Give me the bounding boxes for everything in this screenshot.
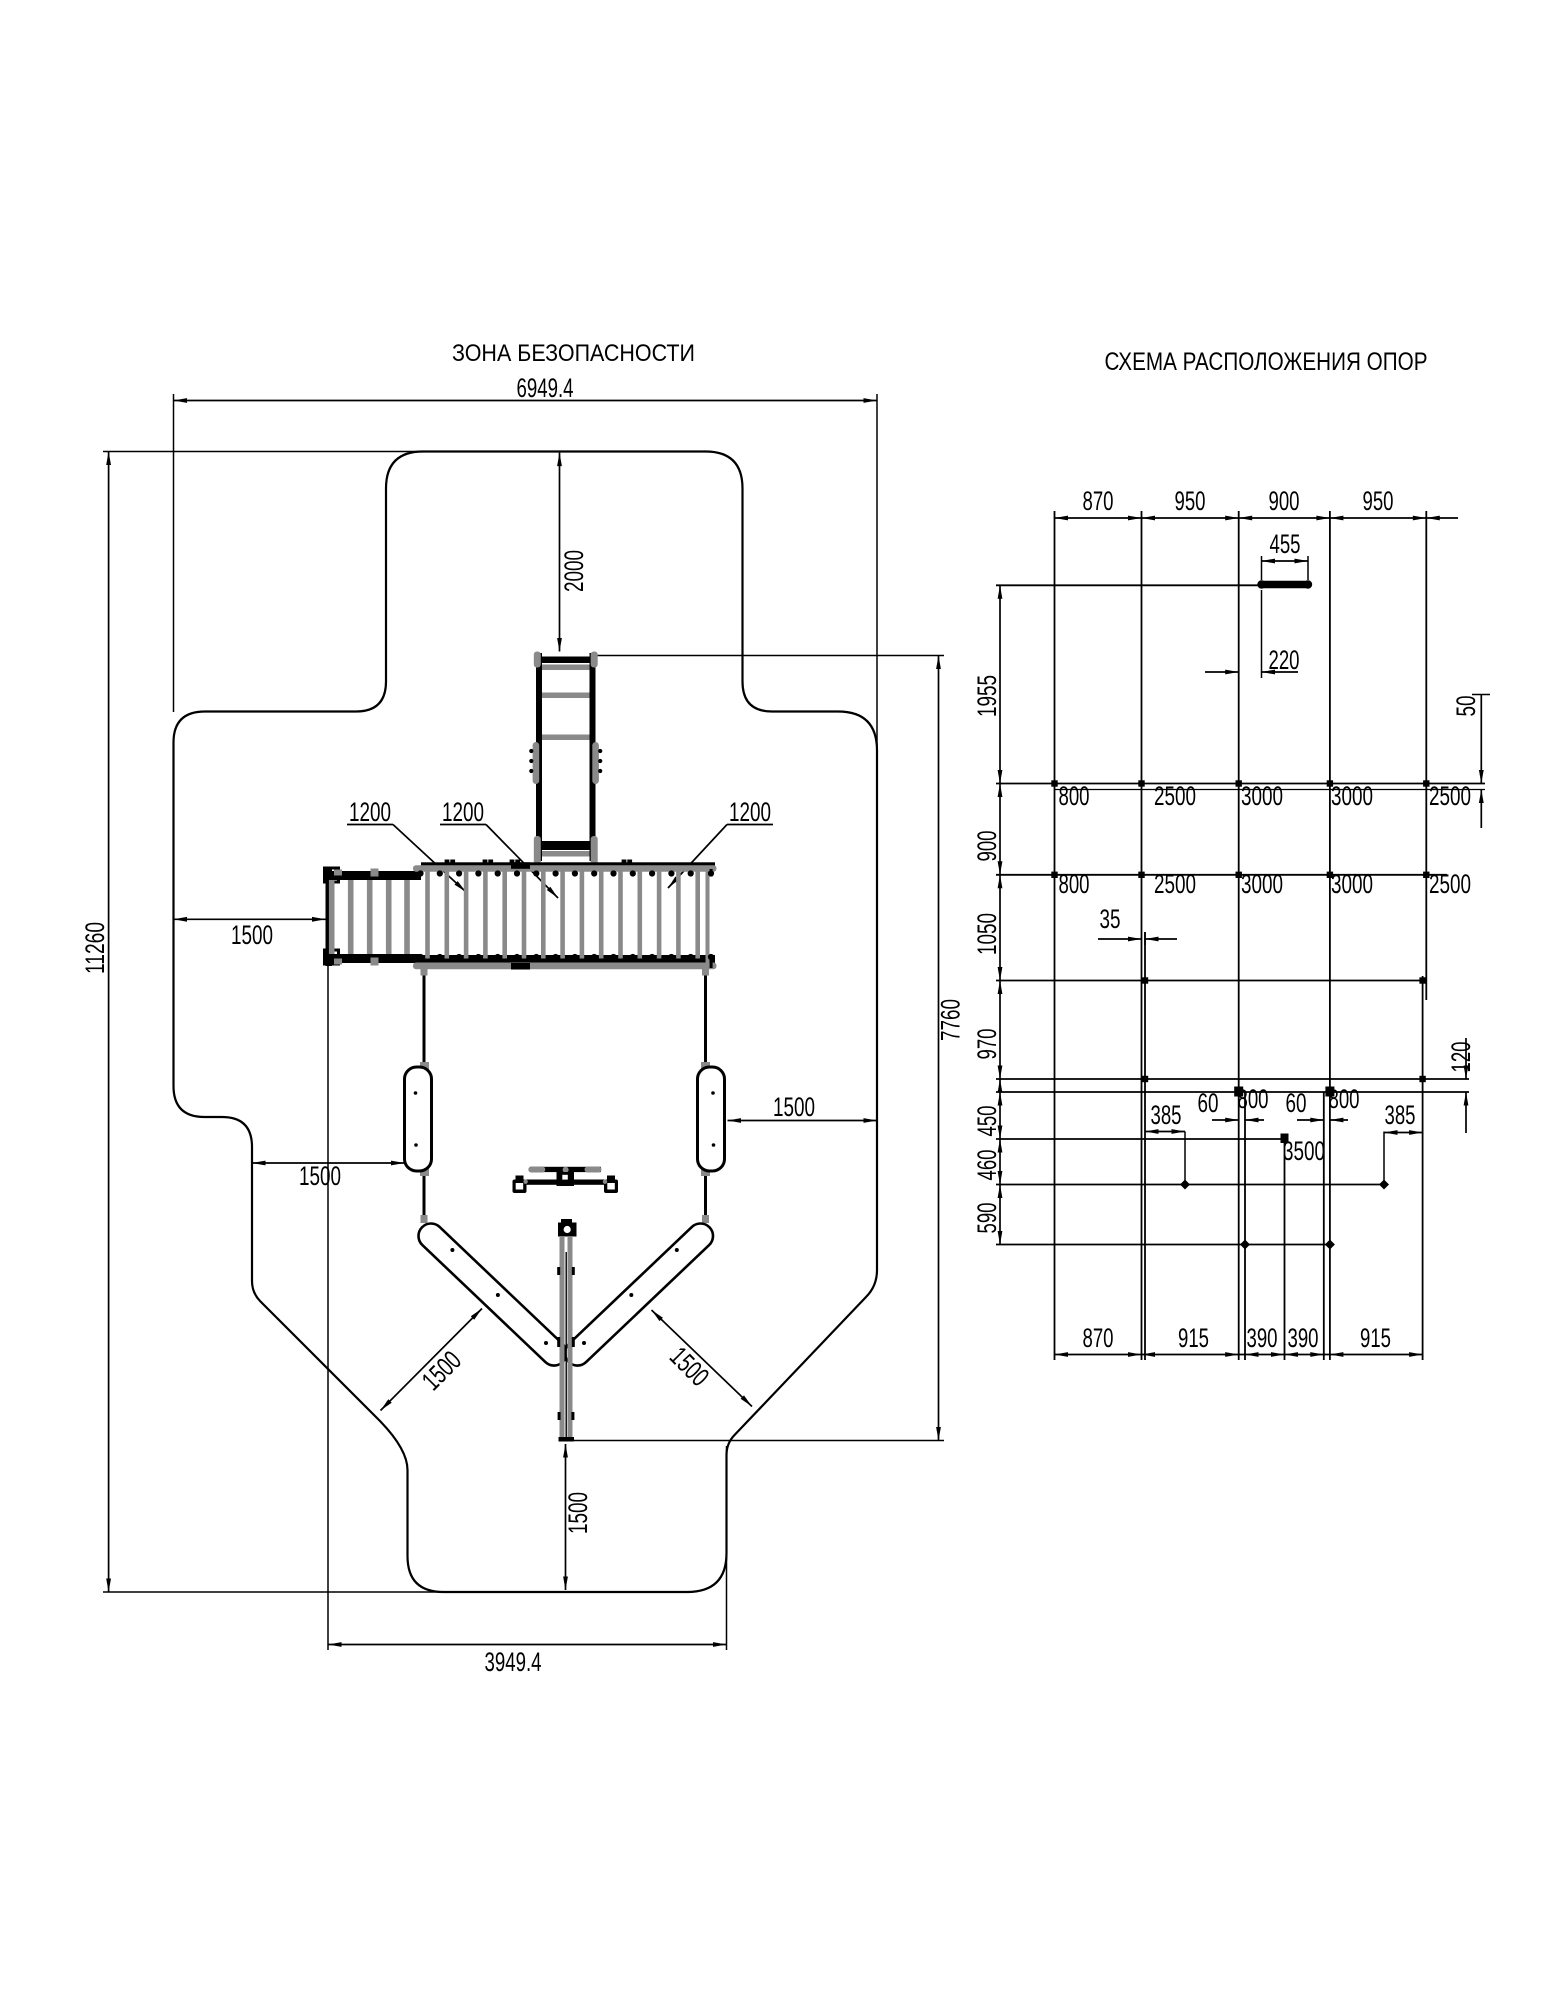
dim 385 right [1383, 1132, 1385, 1185]
svg-text:50: 50 [1451, 696, 1481, 717]
dim 1500 left panel [252, 1162, 405, 1164]
svg-text:390: 390 [1247, 1323, 1278, 1353]
svg-text:590: 590 [972, 1203, 1002, 1234]
svg-text:450: 450 [972, 1106, 1002, 1137]
dim 3949.4 bottom [327, 964, 329, 1650]
dim 385 left [1184, 1132, 1186, 1185]
svg-text:900: 900 [972, 831, 1002, 862]
dim 11260 left [103, 451, 428, 453]
post-V caps [421, 1215, 428, 1223]
svg-text:3949.4: 3949.4 [485, 1647, 542, 1677]
dim 60 left [1212, 1119, 1239, 1121]
posts [423, 970, 426, 1222]
svg-text:800: 800 [1238, 1084, 1269, 1114]
svg-text:3000: 3000 [1241, 781, 1283, 811]
dim 1500 right panel [728, 1120, 878, 1122]
left side panel [420, 1062, 429, 1070]
svg-text:870: 870 [1083, 486, 1114, 516]
svg-text:ЗОНА БЕЗОПАСНОСТИ: ЗОНА БЕЗОПАСНОСТИ [452, 340, 695, 367]
safety zone outline [174, 452, 878, 1593]
support 3500 [1281, 1134, 1289, 1144]
svg-text:2500: 2500 [1154, 869, 1196, 899]
svg-text:3000: 3000 [1331, 781, 1373, 811]
top support beam 455 [1262, 581, 1309, 589]
svg-text:2500: 2500 [1429, 869, 1471, 899]
svg-text:455: 455 [1270, 529, 1301, 559]
svg-text:11260: 11260 [80, 922, 110, 974]
svg-text:385: 385 [1151, 1100, 1182, 1130]
schema vertical grid lines [1054, 511, 1056, 1360]
right side panel [701, 1062, 710, 1070]
svg-text:220: 220 [1269, 645, 1300, 675]
svg-text:3000: 3000 [1241, 869, 1283, 899]
dim 35 [1098, 938, 1142, 940]
svg-text:120: 120 [1446, 1042, 1476, 1073]
svg-text:950: 950 [1363, 486, 1394, 516]
svg-text:970: 970 [972, 1029, 1002, 1060]
svg-text:1200: 1200 [442, 797, 484, 827]
dim 220 [1261, 590, 1263, 678]
V-bar left [413, 1218, 571, 1370]
svg-text:1500: 1500 [299, 1161, 341, 1191]
row1 supports [1051, 780, 1057, 786]
svg-text:7760: 7760 [936, 999, 966, 1041]
svg-text:460: 460 [972, 1150, 1002, 1181]
svg-text:6949.4: 6949.4 [517, 373, 574, 403]
bridge bolts [417, 870, 423, 876]
svg-text:3500: 3500 [1283, 1136, 1325, 1166]
svg-text:870: 870 [1083, 1323, 1114, 1353]
ladder [536, 653, 542, 861]
svg-text:915: 915 [1178, 1323, 1209, 1353]
svg-text:800: 800 [1059, 781, 1090, 811]
row3 supports [1142, 977, 1148, 983]
svg-text:950: 950 [1175, 486, 1206, 516]
dim 120 [1465, 1038, 1467, 1079]
svg-text:800: 800 [1059, 869, 1090, 899]
svg-text:385: 385 [1385, 1100, 1416, 1130]
row2 supports [1051, 872, 1057, 878]
dim 60 right [1297, 1119, 1324, 1121]
svg-text:1200: 1200 [729, 797, 771, 827]
svg-text:СХЕМА РАСПОЛОЖЕНИЯ ОПОР: СХЕМА РАСПОЛОЖЕНИЯ ОПОР [1105, 348, 1428, 376]
row4 supports [1142, 1076, 1148, 1082]
svg-text:60: 60 [1286, 1088, 1307, 1118]
schema bottom dim chain [1055, 1354, 1423, 1356]
dim 455 [1261, 556, 1263, 580]
dim 2000 [559, 453, 561, 652]
V-bar right [560, 1218, 718, 1370]
dim 1500 bottom vertical [565, 1444, 567, 1590]
dim 7760 right [591, 655, 944, 657]
svg-text:1050: 1050 [972, 913, 1002, 955]
row4b supports 800 [1234, 1087, 1243, 1097]
dim 1500 bridge-left [174, 918, 326, 920]
schema horizontal lines [996, 584, 1262, 586]
svg-text:60: 60 [1198, 1088, 1219, 1118]
svg-text:390: 390 [1288, 1323, 1319, 1353]
diamonds [1180, 1180, 1190, 1190]
svg-text:1200: 1200 [349, 797, 391, 827]
svg-text:1500: 1500 [773, 1092, 815, 1122]
dim 6949.4 top [173, 394, 175, 712]
svg-text:915: 915 [1360, 1323, 1391, 1353]
svg-text:2500: 2500 [1429, 781, 1471, 811]
schema top dim chain 870/950/900/950 [1055, 517, 1427, 519]
svg-text:3000: 3000 [1331, 869, 1373, 899]
dim 1500 diagonal right [652, 1310, 753, 1407]
svg-text:35: 35 [1100, 904, 1121, 934]
svg-text:2500: 2500 [1154, 781, 1196, 811]
svg-text:900: 900 [1269, 486, 1300, 516]
svg-text:1955: 1955 [972, 675, 1002, 717]
bridge left ramp [326, 868, 333, 966]
svg-text:1500: 1500 [231, 920, 273, 950]
dim 50 [1472, 694, 1490, 696]
svg-text:2000: 2000 [559, 550, 589, 592]
seesaw [525, 1180, 607, 1185]
slide [561, 1219, 572, 1224]
dim 1500 diagonal left [381, 1309, 483, 1411]
svg-text:1500: 1500 [563, 1492, 593, 1534]
main bridge deck [421, 862, 715, 866]
schema left dim column [999, 585, 1001, 1244]
svg-text:800: 800 [1329, 1084, 1360, 1114]
